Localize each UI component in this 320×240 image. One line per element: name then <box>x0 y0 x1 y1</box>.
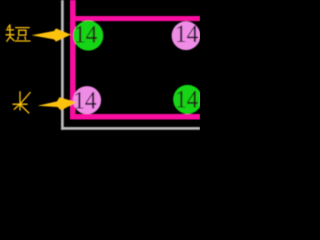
node pink circle 14 top-right <box>172 21 201 50</box>
wire magenta bottom horizontal rebar line <box>70 114 200 120</box>
node green circle 14 bottom-right <box>173 85 202 114</box>
node green circle 14 top-left <box>73 21 103 51</box>
label long text 长 <box>13 92 30 113</box>
svg-text:14: 14 <box>175 21 199 48</box>
wire magenta vertical rebar line <box>70 0 76 120</box>
svg-text:14: 14 <box>73 87 97 114</box>
svg-text:14: 14 <box>74 21 98 48</box>
wire magenta top horizontal rebar line <box>70 16 200 21</box>
node pink circle 14 bottom-left <box>73 86 101 114</box>
wire gray vertical wall line <box>61 0 64 130</box>
label short text 短 <box>6 25 30 41</box>
svg-text:14: 14 <box>175 87 198 114</box>
arrow leader for 短 <box>32 28 71 41</box>
wire gray horizontal wall line <box>61 127 200 130</box>
arrow leader for 长 <box>38 97 77 110</box>
